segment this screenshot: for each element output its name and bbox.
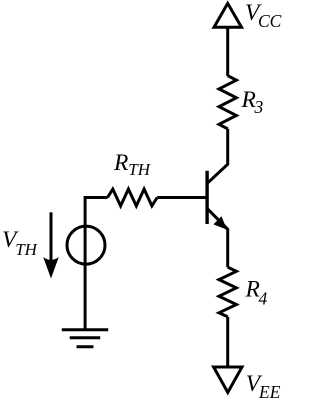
svg-text:R: R xyxy=(113,150,128,176)
svg-text:TH: TH xyxy=(128,160,151,179)
svg-text:CC: CC xyxy=(258,11,282,31)
svg-text:TH: TH xyxy=(15,240,38,259)
svg-text:3: 3 xyxy=(254,97,264,117)
svg-text:EE: EE xyxy=(258,382,281,402)
svg-text:4: 4 xyxy=(259,289,268,309)
